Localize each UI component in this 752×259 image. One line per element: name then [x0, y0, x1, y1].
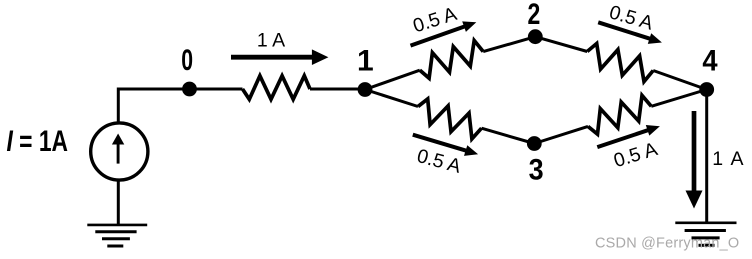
svg-text:0: 0	[181, 44, 193, 77]
svg-text:1: 1	[357, 45, 374, 78]
svg-text:3: 3	[529, 153, 544, 186]
svg-text:1 A: 1 A	[712, 148, 745, 170]
svg-text:4: 4	[702, 45, 717, 78]
svg-text:0.5 A: 0.5 A	[611, 138, 660, 172]
svg-text:2: 2	[528, 0, 541, 31]
svg-text:1 A: 1 A	[257, 30, 285, 52]
svg-text:0.5 A: 0.5 A	[607, 1, 656, 34]
svg-text:0.5 A: 0.5 A	[415, 145, 464, 178]
svg-text:I = 1A: I = 1A	[7, 125, 69, 158]
svg-text:CSDN @Ferryman_O: CSDN @Ferryman_O	[595, 236, 739, 252]
